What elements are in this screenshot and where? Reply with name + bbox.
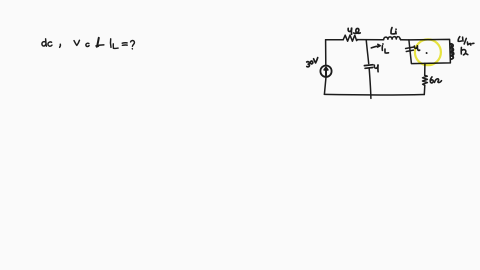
label question text "dc, Vc & iL = ?"	[42, 38, 135, 49]
resistor R2 6ohm	[423, 75, 428, 85]
inductor L1 (top coil)	[384, 37, 401, 40]
wire box to R2	[424, 63, 426, 75]
capacitor C1 plates (middle branch)	[364, 64, 373, 67]
current arrow iL	[371, 44, 388, 53]
label 6ohm	[430, 77, 441, 83]
label C2 value	[414, 46, 419, 51]
voltage source VS 30V	[320, 66, 331, 77]
wire L1 to box	[401, 39, 409, 41]
label C1 value 4	[374, 65, 378, 72]
node dot inside highlight	[426, 52, 428, 54]
wire left vertical bottom	[324, 77, 326, 94]
highlight circle (yellow marker around parallel LC)	[415, 39, 441, 65]
inductor L2 (right edge coil)	[450, 44, 454, 60]
wire left vertical top	[325, 40, 327, 66]
wire middle branch lower	[369, 69, 371, 99]
label L1/2 (top right)	[458, 37, 474, 46]
wire top-left segment	[326, 39, 344, 41]
label 4ohm	[348, 28, 360, 34]
wire R2 to bottom	[423, 85, 426, 94]
wire between R1 and L1	[358, 39, 384, 41]
label L1	[391, 28, 396, 34]
label 30V	[307, 58, 318, 67]
resistor R1 4ohm	[343, 35, 357, 41]
node junction at middle branch	[366, 40, 369, 64]
wire parallel-LC loop (box)	[409, 39, 451, 63]
label L2 value (h2)	[461, 47, 468, 55]
capacitor C2 plates on left edge	[406, 47, 414, 49]
wire bottom	[324, 93, 424, 96]
